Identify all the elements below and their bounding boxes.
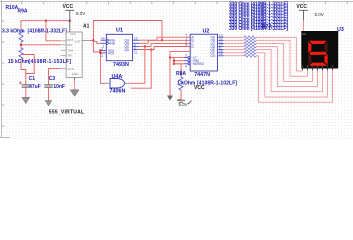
junction LT tie 2 bbox=[173, 63, 175, 65]
svg-text:B: B bbox=[307, 64, 309, 68]
junction at RST branch bbox=[45, 20, 47, 22]
svg-text:11: 11 bbox=[134, 50, 138, 54]
timer A1 555_VIRTUAL box bbox=[61, 32, 83, 77]
wire THR loop dog-leg bbox=[22, 55, 34, 74]
pins U2 right stubs bbox=[218, 33, 224, 56]
capacitor C1 47uF polarized bbox=[19, 81, 30, 87]
ground bars below R8A bbox=[177, 100, 192, 104]
svg-text:47uF: 47uF bbox=[29, 84, 41, 90]
svg-text:E: E bbox=[322, 64, 324, 68]
resistor R4 zigzag bbox=[244, 45, 257, 48]
svg-text:CON: CON bbox=[67, 67, 74, 71]
segment g lit bbox=[309, 52, 327, 55]
segment f lit bbox=[308, 42, 311, 53]
wire 555 GND bbox=[74, 77, 76, 90]
svg-text:15 kOhm: 15 kOhm bbox=[8, 59, 30, 65]
svg-text:OG: OG bbox=[211, 54, 216, 58]
junction tie top bbox=[169, 57, 171, 59]
wire OA line with resistor R1 bbox=[224, 37, 303, 71]
wire OC line with resistor R3 bbox=[224, 43, 313, 81]
svg-text:R02: R02 bbox=[108, 51, 114, 55]
junction node DIS bbox=[20, 44, 22, 46]
svg-text:5.0V: 5.0V bbox=[76, 11, 85, 16]
sheet border ruler top bbox=[0, 2, 353, 5]
wire C3 to ground bbox=[48, 87, 50, 100]
svg-text:D: D bbox=[317, 64, 319, 68]
wire OF line with resistor R6 bbox=[224, 53, 328, 97]
svg-text:[4108R-1-332LF]: [4108R-1-332LF] bbox=[28, 28, 68, 34]
pin letters bbox=[302, 69, 332, 71]
svg-text:RST: RST bbox=[67, 38, 73, 42]
resistor R5 zigzag bbox=[244, 48, 257, 51]
svg-text:5.0V: 5.0V bbox=[315, 12, 324, 17]
resistor R2 zigzag bbox=[244, 39, 257, 42]
wire OUT to U1 INB bbox=[93, 40, 100, 43]
svg-text:6: 6 bbox=[186, 43, 188, 47]
svg-text:3: 3 bbox=[101, 54, 103, 58]
pins U1 left stubs bbox=[100, 40, 106, 53]
wire OUT down to R01/R02 bbox=[93, 41, 100, 52]
resistor R10A 3.3k vertical bbox=[19, 29, 23, 43]
wire QA to U2 A staircase bbox=[140, 37, 191, 40]
wire VCC to display bbox=[302, 21, 304, 31]
svg-text:DIS: DIS bbox=[67, 43, 72, 47]
svg-text:THR: THR bbox=[67, 48, 74, 52]
svg-text:VCC: VCC bbox=[194, 85, 205, 91]
wire gate output up to QB line bbox=[130, 46, 145, 83]
pin numbers U1 bbox=[101, 36, 138, 57]
wire R8A bottom to ground bbox=[178, 91, 181, 100]
junction at VCC stem bbox=[69, 20, 71, 22]
junction OUT node bbox=[92, 39, 94, 41]
svg-text:14: 14 bbox=[219, 52, 223, 56]
wire node R10A/R9A to 555 DIS bbox=[20, 43, 22, 48]
svg-text:C3: C3 bbox=[49, 76, 56, 82]
segment c lit bbox=[324, 54, 327, 65]
wire QB to U2 B staircase bbox=[140, 40, 191, 43]
resistor R9A 15k vertical bbox=[19, 47, 23, 60]
ground below C1 bbox=[22, 97, 30, 103]
junction R01 bbox=[99, 49, 101, 51]
decoder U2 7447N box bbox=[190, 34, 217, 71]
svg-text:7406N: 7406N bbox=[110, 89, 126, 95]
svg-text:4: 4 bbox=[185, 65, 187, 69]
svg-text:CA: CA bbox=[302, 32, 306, 36]
resistor bank labels cluster bbox=[229, 1, 288, 32]
wire 555 OUT to net bbox=[82, 39, 90, 41]
resistor R1 zigzag bbox=[244, 36, 257, 39]
wire OB line with resistor R2 bbox=[224, 40, 308, 76]
svg-text:F: F bbox=[327, 64, 329, 68]
svg-text:A: A bbox=[302, 64, 304, 68]
svg-text:U1: U1 bbox=[116, 28, 123, 34]
svg-text:G: G bbox=[332, 64, 334, 68]
wire RST branch to 555 bbox=[46, 21, 61, 41]
wire OE line with resistor R5 bbox=[224, 50, 323, 92]
svg-text:12: 12 bbox=[134, 36, 138, 40]
junction LT tie 1 bbox=[173, 60, 175, 62]
segment e dim bbox=[308, 54, 311, 65]
svg-text:VCC: VCC bbox=[296, 4, 307, 10]
svg-text:555_VIRTUAL: 555_VIRTUAL bbox=[49, 109, 85, 115]
wire OG line with resistor R7 bbox=[224, 56, 333, 102]
svg-text:7447N: 7447N bbox=[194, 72, 210, 78]
junction top run to A line bbox=[161, 39, 163, 41]
wire C3 to 555 CON bbox=[61, 68, 67, 70]
svg-text:C1: C1 bbox=[29, 76, 36, 82]
segment b dim bbox=[324, 42, 327, 53]
ground below C3 bbox=[45, 101, 52, 107]
resistor R8A 1k vertical bbox=[179, 76, 183, 91]
pins U1 right stubs bbox=[133, 40, 140, 49]
svg-text:R9A: R9A bbox=[18, 8, 28, 14]
svg-text:330 Ohm [4108R-1-331LF]: 330 Ohm [4108R-1-331LF] bbox=[229, 26, 288, 32]
svg-text:C: C bbox=[312, 64, 314, 68]
wire U2 LT/RBI/BI tie bbox=[170, 51, 190, 63]
wire R01/R02 tie to gate input bbox=[100, 50, 106, 83]
wire down to arrow supply bbox=[169, 51, 171, 95]
svg-text:14: 14 bbox=[101, 36, 105, 40]
counter U1 7493N box bbox=[106, 34, 132, 60]
junction gate/QB bbox=[144, 45, 146, 47]
svg-text:U2: U2 bbox=[203, 29, 210, 35]
wire rail down to C1 bbox=[21, 60, 26, 85]
svg-text:R8A: R8A bbox=[176, 71, 186, 77]
power VCC A1 symbol bbox=[65, 10, 74, 32]
wire VCC rail top left bbox=[21, 21, 70, 29]
gate U4A 7406N bbox=[106, 79, 130, 89]
segment d lit bbox=[309, 63, 327, 66]
wire OD line with resistor R4 bbox=[224, 47, 318, 87]
wire R8A top bbox=[174, 64, 181, 76]
pin numbers U2 left bbox=[186, 34, 188, 47]
svg-text:[4108R-1-153LF]: [4108R-1-153LF] bbox=[29, 59, 72, 65]
svg-text:A1: A1 bbox=[83, 24, 90, 30]
svg-text:GND: GND bbox=[72, 72, 80, 76]
pins U2 bottom-left with bubbles bbox=[184, 54, 190, 69]
power VCC display bbox=[299, 10, 308, 20]
wire QC to U2 C staircase bbox=[140, 43, 191, 46]
junction loop/QC bbox=[150, 49, 152, 51]
resistor R6 zigzag bbox=[244, 51, 257, 54]
svg-text:7493N: 7493N bbox=[113, 62, 129, 68]
segment a lit bbox=[309, 41, 327, 44]
display U3 seven segment bbox=[301, 31, 338, 70]
capacitor C3 10nF bbox=[44, 85, 53, 87]
svg-text:1: 1 bbox=[103, 44, 105, 48]
svg-text:10nF: 10nF bbox=[53, 84, 65, 90]
svg-text:VCC: VCC bbox=[63, 4, 74, 10]
resistor R3 zigzag bbox=[244, 42, 257, 45]
ground below 555 bbox=[70, 90, 79, 97]
junction R02 bbox=[99, 52, 101, 54]
svg-text:3: 3 bbox=[185, 54, 187, 58]
svg-text:TRI: TRI bbox=[67, 54, 72, 58]
svg-text:3.3 kOhm: 3.3 kOhm bbox=[2, 28, 25, 34]
svg-text:U4A: U4A bbox=[112, 74, 123, 80]
resistor R7 zigzag bbox=[244, 54, 257, 57]
power arrow 5.0V bbox=[167, 96, 173, 101]
sheet border ruler left bbox=[0, 0, 10, 138]
svg-text:R7A: R7A bbox=[262, 24, 272, 30]
wire C1 to ground bbox=[25, 87, 27, 97]
wire QD to U2 D staircase bbox=[140, 47, 191, 50]
svg-text:QD: QD bbox=[125, 48, 130, 52]
svg-text:OUT: OUT bbox=[74, 39, 81, 43]
svg-text:INB: INB bbox=[110, 42, 115, 46]
wire OUT up to top run bbox=[93, 21, 162, 41]
svg-text:VCC: VCC bbox=[70, 32, 77, 36]
svg-text:~BI/RBO: ~BI/RBO bbox=[192, 62, 205, 66]
wire lower loop to QC line bbox=[131, 50, 151, 89]
svg-text:5.0V: 5.0V bbox=[179, 102, 188, 107]
